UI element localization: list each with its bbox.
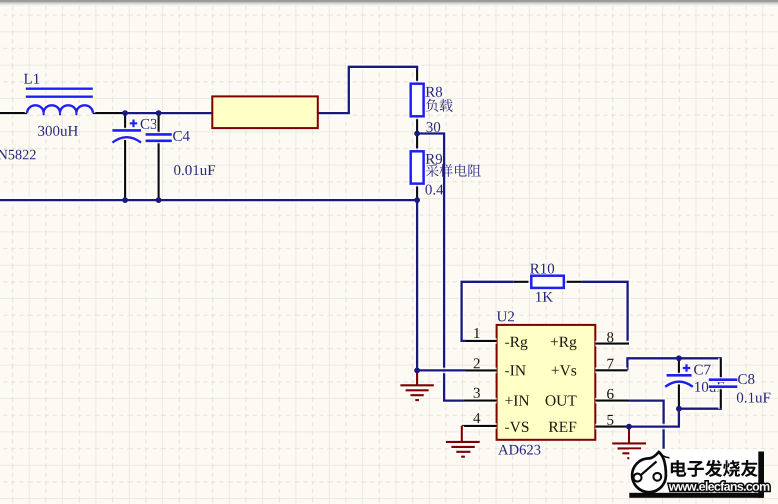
- label sense resistor (cai yang dian zu): [426, 164, 439, 177]
- resistor R9 pins: [415, 134, 420, 201]
- resistor R8 pins: [415, 70, 420, 134]
- part AD623: [498, 445, 540, 455]
- pin 8: [595, 341, 629, 347]
- value 1K: [536, 292, 553, 302]
- pin 1: [466, 338, 497, 344]
- pin 4: [462, 423, 497, 429]
- junction -IN ground node: [414, 368, 420, 374]
- pin name +IN: [505, 396, 529, 406]
- value 0.4: [426, 185, 444, 195]
- ground at REF: [612, 427, 646, 459]
- C8 plates: [709, 380, 738, 387]
- wire: left diode pin into L1: [0, 110, 27, 116]
- pin name -IN: [505, 365, 526, 375]
- capacitor C3 (polarized) pins: [122, 113, 127, 200]
- junction R8/R9 node: [414, 131, 420, 137]
- wire: OUT to lower right: [628, 401, 664, 449]
- wire: C7/C8 bottom link: [679, 390, 721, 409]
- resistor R8 body: [410, 83, 425, 118]
- pin name -VS: [505, 422, 528, 433]
- junction R9 bottom node: [414, 197, 420, 203]
- watermark url: [669, 482, 770, 491]
- wire: R9 bottom node down to -IN node: [414, 200, 420, 370]
- junction C4 bottom: [156, 197, 162, 203]
- op-amp U2 AD623 body: [497, 325, 596, 440]
- capacitor C4 pins: [156, 113, 161, 200]
- C7 plates: [667, 373, 692, 378]
- wire: R10 left loop to pin 1: [462, 282, 514, 341]
- label R9: [426, 154, 443, 164]
- C3 plus: [130, 120, 137, 128]
- C4 plates: [146, 134, 172, 140]
- pin name REF: [549, 422, 577, 432]
- pin name OUT: [546, 395, 577, 406]
- C7 plus: [683, 364, 690, 371]
- L1 core bars: [26, 89, 93, 97]
- ground at -IN node: [400, 370, 433, 400]
- wire: R10 right loop to pin 8: [582, 282, 628, 344]
- junction pin5/REF node: [626, 424, 632, 430]
- label C7: [694, 365, 711, 375]
- wire: L1 pin to C3 node: [93, 110, 126, 116]
- junction C3 top: [122, 110, 128, 116]
- watermark elecfans logo box: [629, 449, 769, 498]
- pin name +Vs: [552, 365, 577, 375]
- label R10: [530, 264, 554, 274]
- refdes U2: [497, 311, 514, 321]
- label C8: [738, 374, 754, 384]
- label L1: [24, 74, 39, 84]
- pin 6: [595, 398, 629, 404]
- pin 3: [465, 398, 497, 404]
- wire: +Vs step up to C7/C8 top rail: [627, 358, 720, 376]
- diode label N5822 (cut off): [0, 150, 36, 160]
- label C4: [173, 131, 190, 141]
- resistor R10 pins: [514, 279, 582, 284]
- wire: regulator block to R8: [318, 67, 417, 113]
- inductor L1: [27, 105, 93, 112]
- C3 plates: [112, 128, 141, 133]
- junction C7 top node: [676, 355, 682, 361]
- capacitor C8 pins: [718, 358, 723, 408]
- resistor R10 body: [530, 275, 565, 290]
- value 0.1uF: [737, 393, 771, 403]
- wire: C3 node to regulator block: [124, 110, 212, 116]
- label R8: [426, 87, 443, 97]
- value 0.01uF: [174, 165, 215, 175]
- junction C3 bottom: [122, 197, 128, 203]
- watermark text dian zi fa shao you: [671, 460, 687, 477]
- label C3: [141, 119, 157, 129]
- value 30: [427, 122, 441, 132]
- regulator block body: [212, 96, 317, 128]
- wire: -IN node to pin 2: [417, 368, 465, 374]
- wire: bottom rail: [0, 197, 417, 203]
- pin name -Rg: [505, 337, 527, 350]
- wire: REF up to C7 bottom: [629, 409, 679, 427]
- pin 7: [595, 367, 627, 373]
- pin 2: [466, 368, 497, 374]
- value 300uH: [38, 126, 78, 136]
- resistor R9 body: [410, 150, 425, 185]
- capacitor C7 (polarized) pins: [676, 358, 681, 408]
- pin name +Rg: [551, 337, 577, 350]
- label load (fu zai): [426, 99, 439, 112]
- watermark mouse icon: [632, 452, 666, 492]
- pin 5: [595, 424, 629, 430]
- value 10uF: [695, 382, 724, 392]
- junction C4 top: [156, 110, 162, 116]
- ground at -VS pin: [446, 426, 480, 457]
- junction C7 bottom node: [676, 406, 682, 412]
- wire: R8/R9 node across and down to +IN: [417, 134, 464, 401]
